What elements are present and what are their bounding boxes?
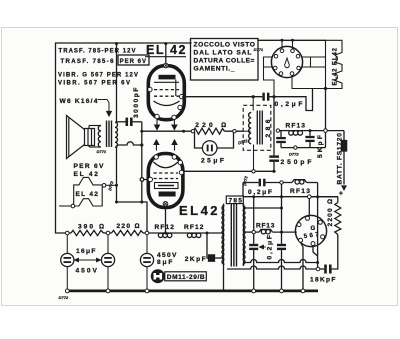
capacitor C1 3000pF — [117, 118, 142, 126]
transformer T3 vibrator 785 — [222, 200, 245, 291]
svg-text:286: 286 — [265, 119, 272, 137]
wire: T1 leads to speaker — [89, 125, 101, 127]
svg-text:VIBR. 567 PER 6V: VIBR. 567 PER 6V — [58, 81, 130, 87]
wire: V1 top cap to B+ rail — [165, 43, 167, 63]
svg-text:450V: 450V — [76, 268, 98, 275]
transformer T1 output W6 K16/4 — [89, 121, 118, 148]
wire: vibrator section rails with hops — [227, 260, 318, 270]
svg-text:2200 Ω: 2200 Ω — [327, 199, 334, 227]
svg-text:RF12: RF12 — [184, 224, 204, 231]
tube V1 heater arrows — [155, 119, 177, 130]
svg-text:0,2μF: 0,2μF — [267, 235, 274, 260]
svg-text:D772: D772 — [59, 295, 69, 300]
svg-text:BATT. FS1720: BATT. FS1720 — [336, 133, 343, 185]
wire: V2 plate to T2 bottom — [184, 170, 275, 172]
svg-text:EL42: EL42 — [179, 203, 218, 218]
transformer T3 secondary winding — [243, 204, 245, 266]
capacitor C14 2KpF — [207, 233, 224, 261]
capacitor C8 0,2uF and choke L2 RF13 on hash filter wire — [243, 179, 318, 197]
tube V2 EL42 envelope and electrodes — [148, 154, 183, 208]
chassis strip with EL42 cutouts — [326, 40, 343, 88]
wire: socket X1 top pins to top rail — [281, 40, 283, 49]
wire: rail y196.7 — [243, 196, 338, 198]
socket X1 key — [285, 58, 290, 68]
resistors R3 390 ohm R4 220 ohm and chokes L4 L5 RF12 on cathode rail — [67, 230, 223, 237]
junction dots (solder points) — [115, 39, 327, 264]
socket X1 tabs and wiring — [264, 40, 326, 96]
junction terminals (open circles) — [65, 129, 327, 293]
wire: stubs to C2 25uF — [195, 131, 203, 148]
chassis cutout EL42 (single) — [74, 177, 103, 206]
socket X1 right tab — [303, 57, 311, 67]
svg-text:RF13: RF13 — [290, 188, 310, 195]
text: TRASF/VIBR table rows — [58, 49, 146, 87]
capacitor C4 250pF — [269, 97, 279, 172]
transformer T1 core — [106, 121, 108, 148]
box: PER 6V callout — [118, 55, 149, 65]
tube V1 anode — [159, 75, 176, 80]
svg-text:3000pF: 3000pF — [133, 88, 140, 119]
wire: from transformer down to cathode rail — [117, 146, 148, 233]
tube V1 EL42 envelope and electrodes — [148, 66, 184, 120]
svg-text:DM11-29/B: DM11-29/B — [167, 274, 205, 281]
transformer T1 primary winding — [115, 122, 118, 147]
badge logo DM11-29/B — [151, 269, 207, 283]
wire: main border top and left (B+ rail) — [56, 43, 192, 233]
svg-text:RF12: RF12 — [155, 224, 175, 231]
svg-text:TRASF. 785-PER 12V: TRASF. 785-PER 12V — [59, 49, 136, 55]
capacitors C9 C10 0,2uF buffer pair — [249, 183, 286, 291]
svg-text:785: 785 — [229, 198, 243, 205]
wire: socket X2 leads — [295, 197, 318, 291]
svg-text:+: + — [339, 190, 343, 197]
wire: V2 plate branch vertical — [118, 122, 149, 202]
choke L1 RF13 with filter wire — [276, 131, 344, 148]
svg-text:220 Ω: 220 Ω — [117, 223, 140, 230]
svg-text:ZOCCOLO VISTO: ZOCCOLO VISTO — [194, 42, 256, 49]
svg-text:25μF: 25μF — [201, 158, 224, 165]
tube V1 pins — [148, 63, 184, 119]
transformer T1 secondary winding — [98, 125, 101, 147]
tube V2 heater arrows — [154, 140, 177, 151]
capacitor C3 0,2uF on V1 screen wire — [184, 89, 313, 111]
resistor R1 220 ohm with screen rail wire — [142, 128, 243, 148]
svg-text:GAMENTI._: GAMENTI._ — [194, 66, 235, 73]
capacitors C5 C6 5KpF filter pair — [280, 131, 282, 137]
tube V2 pins — [148, 155, 184, 206]
ground bus (chassis) — [66, 290, 318, 293]
svg-text:VIBR. G 567 PER 12V: VIBR. G 567 PER 12V — [58, 72, 138, 78]
transformer T2 driver 286 (dashed) — [243, 97, 271, 172]
svg-text:D771: D771 — [254, 47, 264, 52]
svg-text:RF13: RF13 — [256, 223, 275, 230]
transformer T3 core — [230, 200, 232, 267]
tube V2 bottom pin X mark — [164, 202, 167, 205]
svg-text:W6 K16/4: W6 K16/4 — [60, 98, 98, 105]
svg-text:TRASF. 785-6: TRASF. 785-6 — [61, 59, 115, 65]
wire: vertical x317.6 to C7 — [317, 183, 319, 270]
wire: vertical feed to output transformer primary — [116, 43, 118, 122]
wire: V2 cathode to rail — [165, 206, 167, 233]
wire: socket X1 bottom pin to rail y88.5 — [292, 76, 326, 89]
box: ZOCCOLO note — [191, 39, 259, 81]
capacitors C11 C12 16uF 450V electrolytics — [61, 233, 115, 289]
capacitor C13 8uF 450V electrolytic — [140, 233, 153, 289]
wire: socket X1 right tab to chassis strip — [311, 56, 326, 58]
svg-text:D772: D772 — [289, 152, 299, 157]
svg-text:RF13: RF13 — [286, 122, 306, 129]
svg-text:DAL LATO SAL: DAL LATO SAL — [194, 50, 252, 57]
socket X1: EL42 socket bottom view — [271, 46, 302, 77]
svg-text:EL42 EL42: EL42 EL42 — [333, 47, 339, 85]
wire: vertical from chassis to filter — [325, 89, 327, 148]
wire: T3 tap y208 — [244, 207, 282, 209]
wire: socket X1 left tab to screen rail — [264, 67, 275, 97]
transformer T3 primary winding — [223, 204, 225, 291]
svg-text:16μF: 16μF — [76, 248, 96, 255]
svg-text:PER 6V: PER 6V — [120, 59, 147, 65]
battery feed with fuse FS1720 — [341, 131, 346, 185]
svg-text:DATURA COLLE=: DATURA COLLE= — [194, 58, 255, 65]
choke L3 RF13 on vibrator wire — [244, 229, 295, 234]
speaker LS1 — [67, 116, 95, 159]
svg-text:0,2μF: 0,2μF — [248, 189, 272, 196]
svg-text:D771: D771 — [97, 149, 107, 154]
socket X1 left tab — [264, 57, 273, 67]
svg-text:2KpF: 2KpF — [185, 256, 206, 263]
text: ZOCCOLO VISTO DAL LATO SALDATURA COLLEGAMENTI — [194, 42, 256, 73]
svg-text:EL 42: EL 42 — [76, 191, 99, 198]
capacitor C7 18KpF — [318, 265, 330, 274]
capacitor C2 25uF electrolytic — [202, 141, 217, 156]
resistor R2 2200 ohm — [309, 197, 341, 269]
wire: top rail from ZOCCOLO box to chassis strip — [258, 39, 326, 41]
socket X2: vibrator G567 — [295, 215, 326, 246]
wire: T1 primary bottom lead with hop — [118, 142, 142, 145]
svg-text:8μF: 8μF — [157, 259, 173, 266]
